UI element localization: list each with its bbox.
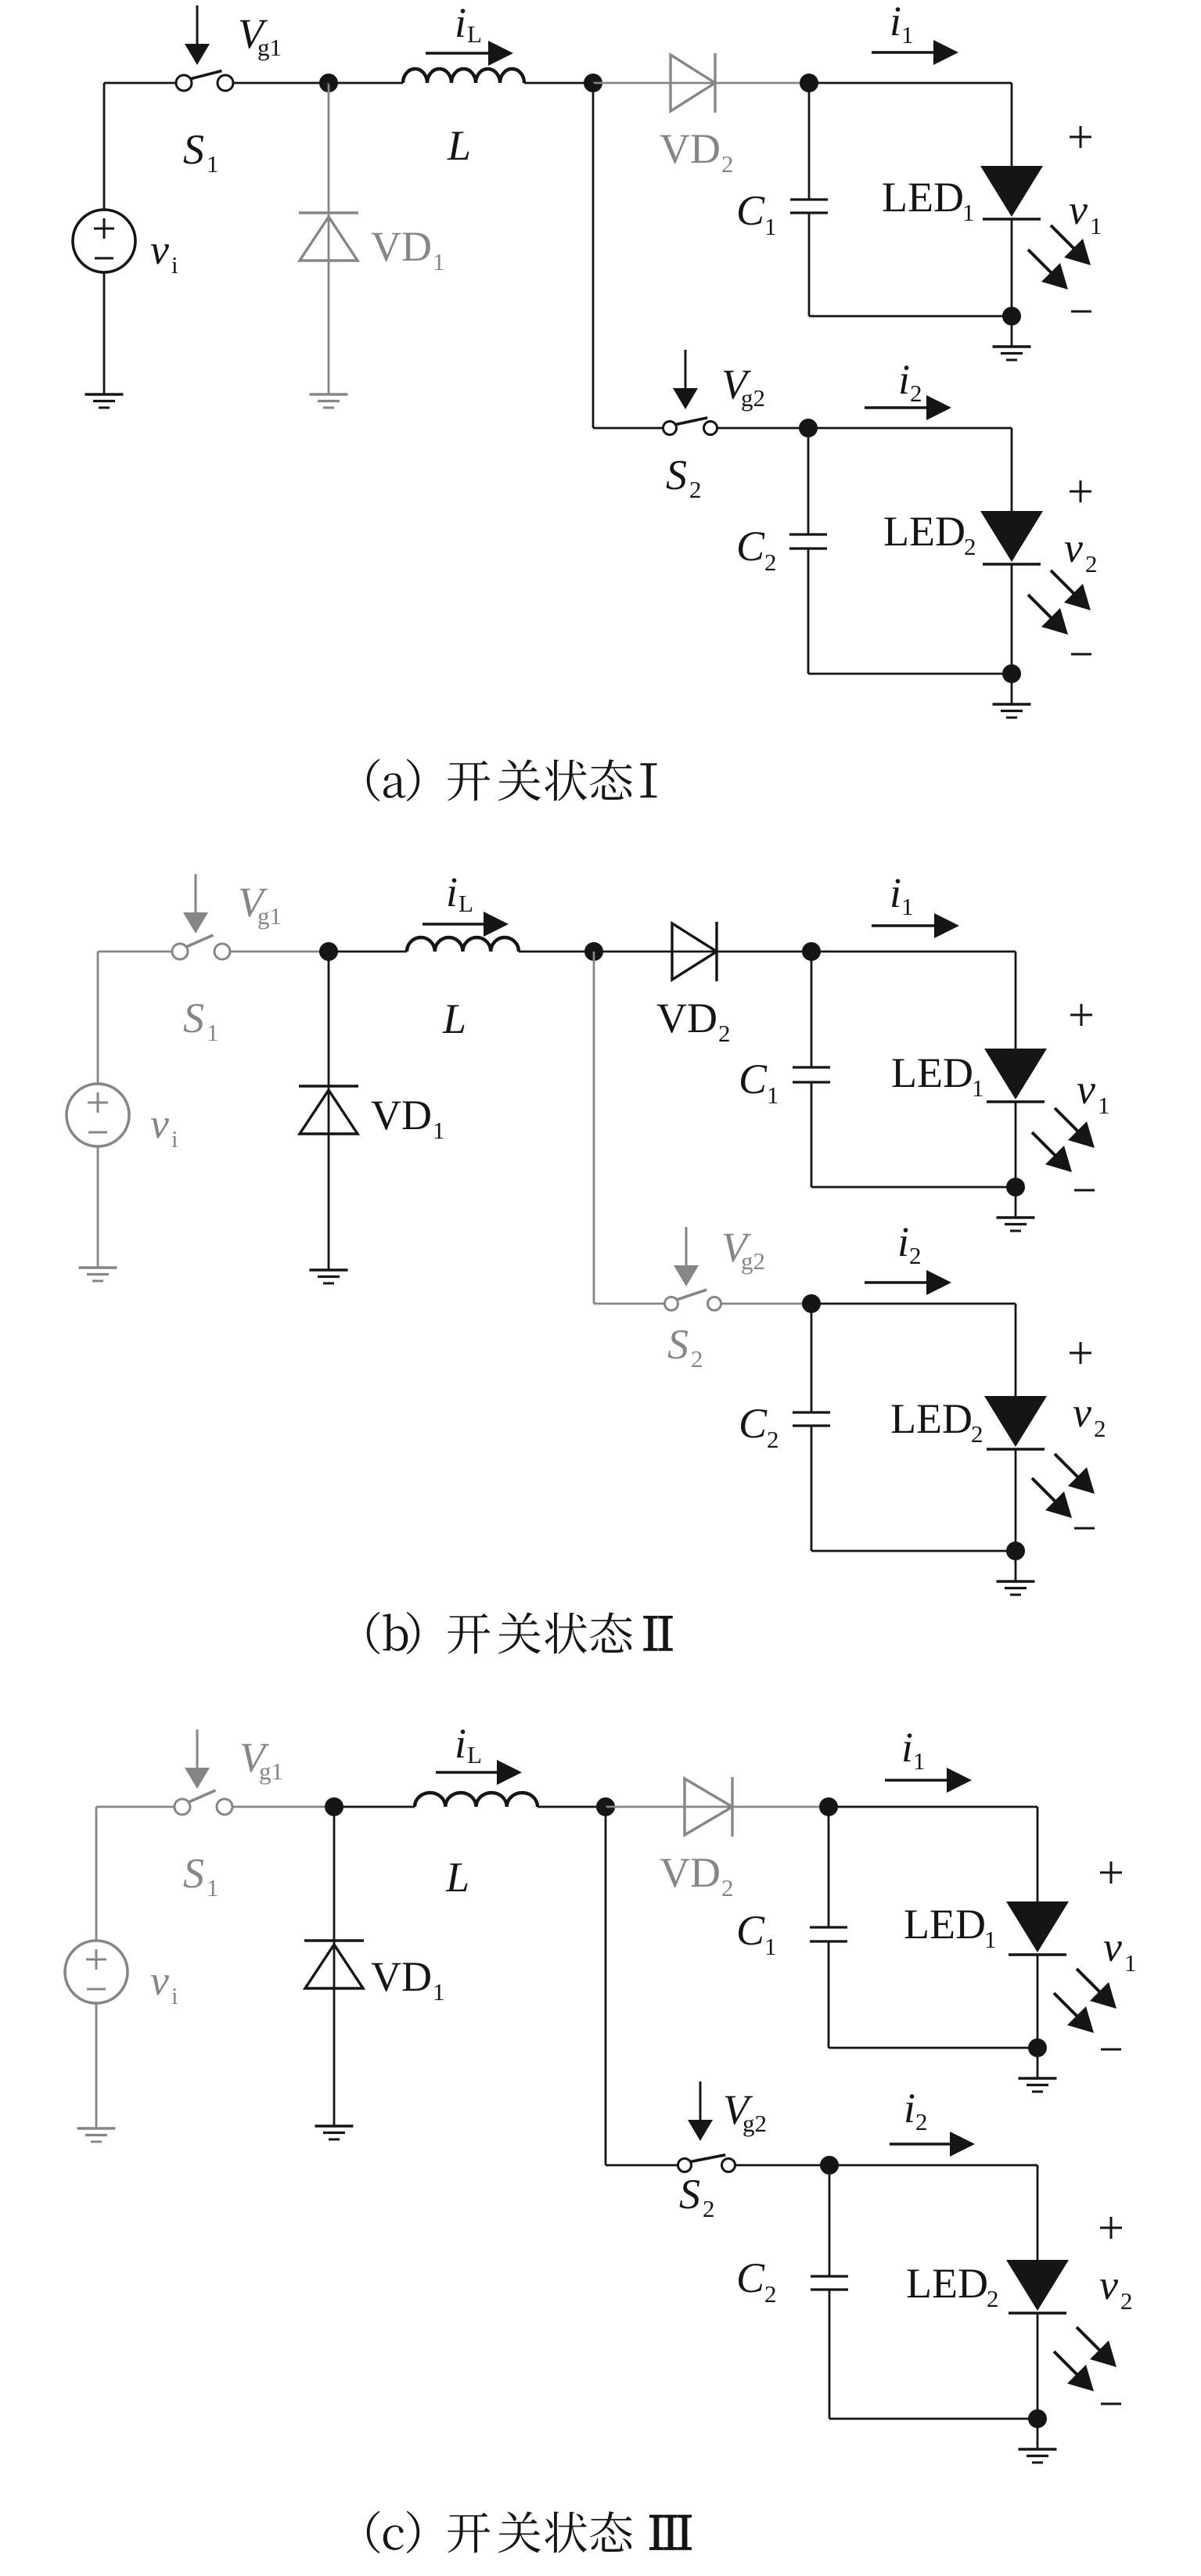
- diode VD1 (circuit b): [299, 1086, 358, 1134]
- label C1 (circuit a): [736, 187, 777, 240]
- wire output 2 bottom (circuit c): [829, 2418, 1037, 2420]
- svg-text:v: v: [150, 1100, 169, 1147]
- node C (circuit a): [800, 74, 818, 92]
- voltage source vi (circuit c): [65, 1941, 128, 2003]
- wire S1 to node A (circuit c): [232, 1806, 334, 1808]
- plus sign output 1 (circuit b): [1070, 1004, 1092, 1026]
- node LED2 cathode junction (circuit b): [1006, 1542, 1025, 1560]
- svg-text:1: 1: [984, 1926, 997, 1953]
- label S1 (circuit c): [183, 1850, 219, 1901]
- wire S2 to node D (circuit c): [735, 2164, 830, 2167]
- voltage source vi (circuit a): [73, 210, 135, 272]
- node D (circuit c): [820, 2156, 839, 2175]
- capacitor C1 wire lower (circuit c): [828, 1941, 830, 2048]
- svg-text:v: v: [150, 226, 169, 273]
- switch S1 (circuit c): [174, 1790, 232, 1815]
- svg-text:L: L: [447, 122, 471, 169]
- node LED1 cathode junction (circuit b): [1006, 1178, 1025, 1196]
- svg-text:S: S: [183, 126, 204, 173]
- svg-text:1: 1: [433, 248, 445, 275]
- svg-text:i: i: [446, 869, 458, 916]
- wire source bottom (circuit b): [97, 1146, 99, 1268]
- ground output 1 (circuit b): [997, 1187, 1035, 1231]
- switch S2 (circuit a): [663, 418, 717, 435]
- ground source (circuit c): [77, 2128, 116, 2142]
- wire output 2 top (circuit c): [829, 2164, 1037, 2167]
- svg-text:C: C: [736, 1907, 765, 1954]
- caption (b) switching state Ⅱ: [367, 1612, 672, 1654]
- wire output 2 bottom (circuit b): [811, 1550, 1016, 1552]
- svg-text:1: 1: [913, 1747, 926, 1775]
- svg-text:v: v: [1073, 1389, 1091, 1436]
- svg-text:i: i: [898, 356, 910, 403]
- svg-text:i: i: [890, 869, 901, 916]
- label LED2 (circuit b): [890, 1395, 983, 1448]
- svg-text:2: 2: [971, 1420, 983, 1448]
- svg-text:S: S: [667, 1321, 689, 1368]
- label iL (circuit a): [455, 0, 482, 48]
- minus sign output 1 (circuit a): [1071, 311, 1091, 313]
- capacitor C2 wire lower (circuit c): [829, 2290, 831, 2419]
- label v2 (circuit c): [1099, 2261, 1133, 2315]
- LED1 (circuit a): [980, 166, 1043, 219]
- diode VD2 (circuit c): [685, 1777, 732, 1837]
- plus sign output 1 (circuit a): [1070, 126, 1091, 148]
- svg-text:1: 1: [901, 21, 914, 49]
- capacitor C2 (circuit a): [789, 534, 827, 549]
- label vi (circuit a): [150, 226, 178, 279]
- svg-text:VD: VD: [660, 125, 721, 172]
- node LED1 cathode junction (circuit c): [1028, 2038, 1047, 2057]
- switch S1 (circuit a): [176, 71, 233, 92]
- svg-text:2: 2: [689, 476, 702, 503]
- wire output 1 bottom (circuit b): [811, 1186, 1016, 1189]
- label i2 (circuit b): [897, 1218, 922, 1269]
- svg-text:VD: VD: [371, 223, 432, 270]
- svg-text:2: 2: [718, 1020, 731, 1047]
- wire inductor to node B (circuit c): [538, 1806, 606, 1808]
- wire inductor to node B (circuit b): [519, 951, 594, 953]
- label LED1 (circuit a): [882, 174, 975, 226]
- wire input rail top (circuit a): [103, 83, 106, 210]
- svg-text:2: 2: [691, 1345, 703, 1373]
- label iL (circuit b): [446, 869, 473, 917]
- ground output 2 (circuit b): [997, 1551, 1035, 1595]
- label v1 (circuit a): [1069, 186, 1102, 239]
- LED2 (circuit a): [980, 511, 1043, 564]
- svg-text:L: L: [458, 890, 473, 917]
- ground VD1 (circuit b): [310, 1270, 348, 1283]
- svg-text:C: C: [739, 1400, 768, 1447]
- svg-text:i: i: [171, 1982, 178, 2009]
- label VD2 (circuit a): [660, 125, 734, 178]
- wire LED2 anode down (circuit c): [1037, 2165, 1039, 2260]
- current arrow i1 (circuit a): [872, 40, 958, 65]
- svg-text:1: 1: [207, 1019, 219, 1046]
- gate signal arrow Vg1 (circuit a): [185, 5, 210, 65]
- LED2 (circuit c): [1006, 2260, 1069, 2313]
- wire node B to node C through VD2 (circuit b): [594, 951, 811, 953]
- label C1 (circuit c): [736, 1907, 777, 1960]
- capacitor C2 wire upper (circuit b): [811, 1304, 813, 1412]
- svg-text:1: 1: [207, 150, 219, 178]
- svg-text:1: 1: [764, 1933, 777, 1960]
- wire VD1 branch (circuit c): [333, 1807, 336, 2126]
- ground source (circuit a): [85, 394, 124, 408]
- capacitor C1 wire lower (circuit b): [811, 1082, 813, 1187]
- wire output 1 top (circuit c): [829, 1806, 1037, 1808]
- svg-text:2: 2: [1120, 2287, 1133, 2315]
- node LED2 cathode junction (circuit a): [1002, 664, 1021, 683]
- wire node A to inductor (circuit b): [329, 951, 407, 953]
- wire LED2 cathode down (circuit b): [1015, 1449, 1017, 1551]
- svg-text:LED: LED: [883, 508, 965, 555]
- capacitor C1 (circuit b): [793, 1067, 830, 1082]
- svg-text:v: v: [1077, 1066, 1095, 1113]
- node A (circuit c): [325, 1797, 343, 1816]
- wire LED1 cathode down (circuit b): [1015, 1102, 1017, 1187]
- inductor L (circuit a): [403, 69, 524, 83]
- diode VD1 (circuit a): [299, 213, 358, 261]
- plus sign output 2 (circuit c): [1100, 2217, 1122, 2239]
- node C (circuit b): [802, 942, 821, 961]
- label C2 (circuit b): [739, 1400, 779, 1453]
- label S1 (circuit b): [183, 995, 219, 1046]
- svg-text:i: i: [901, 1724, 913, 1771]
- wire source bottom (circuit a): [103, 272, 106, 394]
- label VD1 (circuit a): [371, 223, 445, 275]
- label LED1 (circuit c): [904, 1901, 997, 1953]
- wire S2 to node D (circuit b): [721, 1303, 812, 1305]
- wire VD1 branch (circuit a): [328, 83, 330, 394]
- wire LED1 anode down (circuit a): [1011, 83, 1013, 166]
- capacitor C2 wire lower (circuit b): [811, 1426, 813, 1551]
- label Vg2 (circuit a): [721, 361, 765, 412]
- capacitor C2 wire upper (circuit a): [807, 428, 810, 534]
- label v2 (circuit b): [1073, 1389, 1106, 1442]
- label Vg2 (circuit c): [723, 2086, 767, 2137]
- ground output 1 (circuit c): [1019, 2048, 1057, 2092]
- plus sign output 2 (circuit a): [1070, 480, 1091, 502]
- svg-text:1: 1: [1090, 212, 1102, 239]
- label S2 (circuit c): [679, 2171, 715, 2222]
- capacitor C2 (circuit c): [811, 2276, 848, 2290]
- label Vg1 (circuit a): [238, 10, 282, 61]
- minus sign output 2 (circuit b): [1074, 1527, 1095, 1530]
- gate signal arrow Vg1 (circuit c): [185, 1729, 210, 1789]
- svg-text:v: v: [1099, 2261, 1118, 2308]
- capacitor C1 wire upper (circuit c): [828, 1807, 830, 1927]
- svg-text:VD: VD: [660, 1849, 721, 1896]
- svg-text:g1: g1: [259, 1758, 283, 1785]
- label LED1 (circuit b): [891, 1049, 984, 1102]
- svg-text:1: 1: [1124, 1949, 1137, 1977]
- svg-text:2: 2: [1085, 550, 1098, 577]
- gate signal arrow Vg2 (circuit c): [688, 2081, 713, 2141]
- label VD1 (circuit c): [371, 1953, 445, 2006]
- node LED1 cathode junction (circuit a): [1002, 307, 1021, 326]
- svg-text:2: 2: [764, 549, 777, 576]
- wire source bottom (circuit c): [95, 2003, 98, 2128]
- wire LED1 anode down (circuit c): [1037, 1807, 1039, 1901]
- current arrow iL (circuit c): [436, 1760, 522, 1785]
- minus sign output 1 (circuit c): [1101, 2049, 1121, 2051]
- svg-text:2: 2: [910, 380, 922, 407]
- svg-text:L: L: [467, 1741, 482, 1768]
- label Vg1 (circuit c): [239, 1734, 283, 1785]
- svg-text:L: L: [445, 1854, 469, 1901]
- svg-text:g1: g1: [257, 34, 282, 61]
- switch S2 (circuit b): [665, 1290, 721, 1310]
- ground VD1 (circuit c): [315, 2126, 354, 2139]
- wire node B to node C through VD2 (circuit c): [606, 1806, 829, 1808]
- svg-text:i: i: [897, 1218, 909, 1265]
- svg-text:i: i: [455, 0, 466, 46]
- svg-text:v: v: [1103, 1923, 1122, 1970]
- svg-text:g1: g1: [257, 902, 282, 930]
- svg-text:i: i: [171, 1125, 178, 1153]
- switch S1 (circuit b): [172, 935, 230, 959]
- minus sign output 2 (circuit a): [1071, 653, 1091, 656]
- svg-text:2: 2: [767, 1426, 779, 1453]
- inductor L (circuit b): [407, 937, 519, 952]
- label S1 (circuit a): [183, 126, 219, 178]
- caption (a) switching state Ⅰ: [367, 759, 656, 801]
- label v2 (circuit a): [1064, 524, 1098, 577]
- wire node A to inductor (circuit a): [329, 82, 403, 85]
- node C (circuit c): [819, 1797, 838, 1816]
- label Vg1 (circuit b): [238, 879, 282, 930]
- current arrow i2 (circuit a): [865, 395, 951, 420]
- svg-text:g2: g2: [741, 1247, 765, 1275]
- voltage source vi (circuit b): [67, 1084, 129, 1146]
- ground output 2 (circuit c): [1019, 2419, 1057, 2463]
- label Vg2 (circuit b): [721, 1224, 765, 1275]
- svg-text:S: S: [679, 2171, 700, 2218]
- svg-text:S: S: [183, 995, 204, 1042]
- wire LED1 cathode down (circuit c): [1037, 1955, 1039, 2048]
- svg-text:v: v: [150, 1957, 169, 2004]
- ground output 2 (circuit a): [993, 674, 1031, 718]
- svg-text:LED: LED: [891, 1049, 973, 1096]
- wire S1 to node A (circuit a): [233, 82, 329, 85]
- LED1 (circuit c): [1006, 1901, 1069, 1955]
- svg-text:S: S: [666, 452, 687, 498]
- svg-text:1: 1: [1098, 1092, 1110, 1119]
- wire node B down to S2 (circuit a): [593, 83, 663, 428]
- svg-text:v: v: [1064, 524, 1083, 571]
- wire output 2 top (circuit a): [808, 427, 1012, 430]
- svg-text:VD: VD: [371, 1953, 432, 2000]
- label LED2 (circuit a): [883, 508, 976, 560]
- node B (circuit b): [584, 942, 603, 961]
- svg-text:C: C: [736, 2254, 765, 2301]
- wire node A to inductor (circuit c): [334, 1806, 415, 1808]
- node A (circuit a): [319, 74, 338, 92]
- label i1 (circuit b): [890, 869, 914, 920]
- wire LED2 anode down (circuit a): [1011, 428, 1013, 511]
- capacitor C1 (circuit a): [790, 200, 828, 213]
- current arrow i1 (circuit b): [872, 913, 959, 938]
- wire source top segment to switch (circuit a): [104, 82, 176, 85]
- caption (c) switching state Ⅲ: [367, 2511, 691, 2553]
- gate signal arrow Vg1 (circuit b): [183, 874, 208, 934]
- current arrow iL (circuit a): [426, 41, 513, 66]
- wire LED2 cathode down (circuit a): [1011, 564, 1013, 674]
- svg-text:1: 1: [207, 1874, 219, 1901]
- svg-text:i: i: [890, 0, 901, 45]
- label C1 (circuit b): [739, 1056, 779, 1109]
- label S2 (circuit b): [667, 1321, 703, 1373]
- wire S1 to node A (circuit b): [230, 951, 329, 953]
- label S2 (circuit a): [666, 452, 702, 503]
- capacitor C1 wire lower (circuit a): [808, 213, 811, 316]
- capacitor C2 wire lower (circuit a): [807, 549, 810, 674]
- wire node B down to S2 (circuit c): [606, 1807, 678, 2165]
- label C2 (circuit c): [736, 2254, 777, 2308]
- LED1 light arrows (circuit b): [1032, 1108, 1095, 1172]
- LED2 light arrows (circuit a): [1028, 570, 1091, 635]
- svg-text:2: 2: [721, 150, 734, 178]
- svg-text:i: i: [455, 1720, 466, 1767]
- svg-text:1: 1: [767, 1081, 779, 1109]
- wire source top segment to switch (circuit b): [98, 951, 172, 953]
- wire output 1 top (circuit b): [811, 951, 1016, 953]
- gate signal arrow Vg2 (circuit b): [674, 1227, 699, 1286]
- svg-text:2: 2: [915, 2108, 928, 2135]
- svg-text:i: i: [904, 2085, 915, 2132]
- LED2 (circuit b): [984, 1396, 1047, 1449]
- minus sign output 2 (circuit c): [1101, 2403, 1121, 2405]
- label C2 (circuit a): [736, 523, 777, 576]
- node B (circuit c): [596, 1797, 615, 1816]
- svg-text:LED: LED: [904, 1901, 986, 1948]
- plus sign output 2 (circuit b): [1070, 1342, 1091, 1364]
- label LED2 (circuit c): [906, 2260, 999, 2312]
- current arrow i2 (circuit c): [890, 2132, 975, 2157]
- svg-text:1: 1: [764, 213, 777, 240]
- label i1 (circuit c): [901, 1724, 926, 1775]
- capacitor C2 wire upper (circuit c): [829, 2165, 831, 2276]
- plus sign output 1 (circuit c): [1100, 1862, 1122, 1883]
- wire node B down to S2 (circuit b): [594, 952, 665, 1304]
- capacitor C2 (circuit b): [793, 1412, 830, 1426]
- inductor L (circuit c): [415, 1793, 538, 1807]
- diode VD2 (circuit b): [672, 922, 717, 981]
- wire source top segment to switch (circuit c): [96, 1806, 174, 1808]
- current arrow i2 (circuit b): [865, 1270, 951, 1295]
- wire input rail top (circuit c): [95, 1807, 98, 1941]
- capacitor C1 (circuit c): [810, 1927, 847, 1941]
- svg-text:C: C: [736, 187, 765, 234]
- label v1 (circuit b): [1077, 1066, 1110, 1119]
- label i2 (circuit a): [898, 356, 922, 407]
- svg-text:VD: VD: [371, 1092, 432, 1139]
- wire output 1 bottom (circuit a): [809, 315, 1012, 318]
- label iL (circuit c): [455, 1720, 482, 1768]
- svg-text:S: S: [183, 1850, 204, 1897]
- svg-text:VD: VD: [656, 995, 717, 1042]
- svg-text:LED: LED: [906, 2260, 988, 2307]
- ground output 1 (circuit a): [993, 316, 1031, 360]
- current arrow iL (circuit b): [423, 912, 509, 937]
- node D (circuit b): [802, 1294, 821, 1313]
- node LED2 cathode junction (circuit c): [1028, 2409, 1047, 2428]
- label VD2 (circuit c): [660, 1849, 734, 1901]
- wire output 1 bottom (circuit c): [829, 2047, 1037, 2049]
- diode VD1 (circuit c): [304, 1941, 364, 1988]
- wire inductor to node B (circuit a): [524, 82, 593, 85]
- label v1 (circuit c): [1103, 1923, 1137, 1977]
- LED1 light arrows (circuit c): [1054, 1969, 1116, 2033]
- svg-text:v: v: [1069, 186, 1088, 233]
- wire LED1 anode down (circuit b): [1015, 952, 1017, 1049]
- svg-text:g2: g2: [741, 384, 765, 412]
- svg-text:i: i: [171, 251, 178, 279]
- LED2 light arrows (circuit b): [1032, 1454, 1095, 1518]
- current arrow i1 (circuit c): [885, 1768, 972, 1793]
- svg-text:LED: LED: [890, 1395, 973, 1442]
- label i1 (circuit a): [890, 0, 914, 49]
- svg-text:C: C: [736, 523, 765, 570]
- svg-text:L: L: [467, 20, 482, 48]
- svg-text:2: 2: [721, 1874, 734, 1901]
- wire output 1 top (circuit a): [809, 82, 1012, 85]
- diode VD2 (circuit a): [671, 53, 715, 113]
- gate signal arrow Vg2 (circuit a): [673, 350, 698, 409]
- svg-text:2: 2: [987, 2285, 999, 2312]
- label vi (circuit b): [150, 1100, 178, 1153]
- node A (circuit b): [319, 942, 338, 961]
- svg-text:1: 1: [962, 199, 975, 226]
- svg-text:L: L: [442, 995, 466, 1042]
- node D (circuit a): [799, 419, 818, 437]
- svg-text:1: 1: [433, 1117, 445, 1144]
- wire input rail top (circuit b): [97, 952, 99, 1084]
- svg-text:g2: g2: [743, 2110, 767, 2137]
- svg-text:2: 2: [964, 533, 976, 560]
- capacitor C1 wire upper (circuit b): [811, 952, 813, 1067]
- svg-text:C: C: [739, 1056, 768, 1103]
- label i2 (circuit c): [904, 2085, 928, 2135]
- wire LED1 cathode down (circuit a): [1011, 219, 1013, 316]
- wire output 2 top (circuit b): [811, 1303, 1016, 1305]
- svg-text:1: 1: [972, 1074, 984, 1102]
- label VD2 (circuit b): [656, 995, 731, 1047]
- label VD1 (circuit b): [371, 1092, 445, 1144]
- wire LED2 anode down (circuit b): [1015, 1304, 1017, 1396]
- svg-text:1: 1: [901, 893, 914, 920]
- wire node B to node C through VD2 (circuit a): [593, 82, 809, 85]
- ground source (circuit b): [79, 1268, 117, 1281]
- svg-text:2: 2: [764, 2280, 777, 2308]
- node B (circuit a): [584, 74, 602, 92]
- capacitor C1 wire upper (circuit a): [808, 83, 811, 200]
- wire output 2 bottom (circuit a): [808, 673, 1012, 675]
- LED1 (circuit b): [984, 1049, 1047, 1102]
- LED2 light arrows (circuit c): [1054, 2327, 1116, 2391]
- LED1 light arrows (circuit a): [1028, 225, 1091, 290]
- wire LED2 cathode down (circuit c): [1037, 2313, 1039, 2419]
- svg-text:LED: LED: [882, 174, 964, 221]
- wire S2 to node D (circuit a): [717, 427, 809, 430]
- svg-text:2: 2: [1094, 1415, 1106, 1442]
- svg-text:1: 1: [433, 1978, 445, 2006]
- label vi (circuit c): [150, 1957, 178, 2009]
- wire VD1 branch (circuit b): [328, 952, 330, 1270]
- svg-text:2: 2: [909, 1242, 922, 1269]
- ground VD1 (circuit a): [310, 394, 348, 408]
